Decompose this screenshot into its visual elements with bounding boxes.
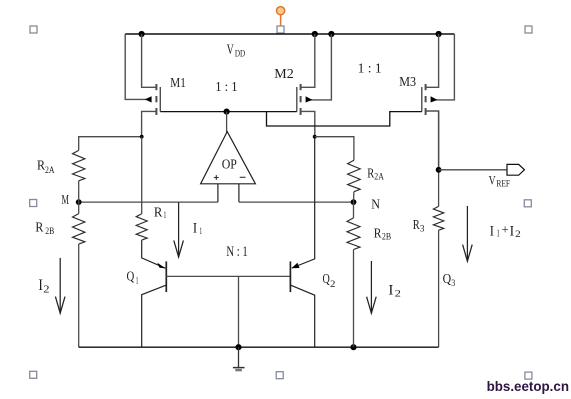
current arrow I1	[174, 203, 184, 257]
svg-text:M1: M1	[170, 76, 186, 91]
svg-text:OP: OP	[222, 157, 237, 172]
wire R2A to node M	[78, 181, 80, 214]
svg-text:V: V	[227, 42, 234, 58]
svg-text:1 : 1: 1 : 1	[358, 62, 382, 77]
svg-text:I: I	[388, 283, 393, 299]
svg-text:I: I	[490, 223, 494, 239]
svg-text:DD: DD	[235, 49, 245, 59]
selection handle mid-right	[524, 200, 531, 207]
wire node M to op-amp + input	[79, 201, 218, 203]
current arrow I1+I2	[463, 206, 473, 261]
junction R2B right on ground rail	[350, 344, 356, 350]
ground junction	[235, 344, 241, 350]
resistor R1	[136, 214, 147, 240]
wire R2B to ground rail	[78, 244, 80, 347]
selection handle bottom-mid	[276, 372, 283, 379]
wire Q1-Q2 common base	[166, 275, 290, 277]
wire gate jog to M3	[267, 112, 422, 126]
svg-text:bbs.eetop.cn: bbs.eetop.cn	[487, 378, 569, 394]
wire op-amp output stub	[226, 112, 228, 133]
VREF output port	[507, 164, 524, 175]
svg-text:REF: REF	[496, 179, 510, 189]
svg-text:Q: Q	[127, 269, 135, 284]
transistor Q1 (PNP)	[142, 261, 167, 347]
svg-text:1: 1	[497, 229, 500, 240]
resistor R2B left	[73, 214, 85, 245]
svg-text:Q: Q	[323, 272, 330, 287]
junction VREF node	[436, 167, 442, 173]
resistor R2A right	[348, 160, 361, 192]
svg-text:I: I	[510, 223, 514, 239]
svg-text:2A: 2A	[45, 166, 55, 176]
transistor M1 (PMOS)	[125, 34, 160, 137]
wire R2A right to node N	[353, 192, 355, 202]
current arrow I2 right	[367, 261, 377, 313]
wire M3 drain to R3	[438, 111, 440, 206]
svg-text:2A: 2A	[374, 173, 384, 183]
wire R3 to ground rail	[438, 230, 440, 347]
svg-text:M: M	[62, 193, 70, 208]
junction M2 source on rail	[312, 31, 318, 37]
junction M2 drain split	[313, 135, 317, 139]
svg-text:+: +	[502, 222, 509, 237]
svg-text:2B: 2B	[45, 227, 54, 237]
svg-text:N: N	[371, 198, 380, 213]
current arrow I2 left	[55, 258, 65, 313]
resistor R2A left	[73, 150, 85, 180]
svg-text:2: 2	[43, 284, 49, 295]
wire M2 drain to Q2 emitter	[292, 137, 315, 268]
svg-text:1: 1	[164, 211, 167, 221]
wire node N to op-amp - input	[239, 201, 354, 203]
selection handle mid-left	[30, 200, 37, 207]
ground rail (bottom wire)	[79, 346, 439, 348]
VDD supply pin	[277, 7, 285, 26]
svg-text:Q: Q	[443, 272, 452, 287]
ground symbol	[233, 347, 245, 370]
wire gate line M1-M2	[160, 111, 296, 113]
wire base to ground rail	[238, 276, 240, 347]
svg-text:3: 3	[420, 225, 425, 235]
selection handle top-right	[525, 26, 532, 33]
selection handle bottom-left	[30, 371, 37, 378]
selection handle bottom-right	[525, 372, 532, 379]
op-amp - input mark	[240, 176, 246, 178]
svg-text:M3: M3	[399, 75, 416, 90]
wire R1 to Q1 emitter	[142, 240, 166, 268]
wire M1 drain to R1	[141, 137, 143, 214]
wire R2B right to ground rail	[353, 250, 355, 348]
junction M1 source on rail	[139, 31, 145, 37]
wire M1 drain split	[79, 137, 142, 151]
svg-text:1: 1	[199, 227, 202, 237]
wire VREF output	[439, 169, 507, 171]
junction gate node to op-amp	[224, 109, 230, 115]
op-amp + input mark	[214, 175, 219, 180]
junction M2 body on rail	[328, 31, 334, 37]
svg-text:2: 2	[395, 290, 402, 300]
svg-text:I: I	[193, 221, 197, 237]
svg-text:2: 2	[515, 230, 521, 240]
selection handle top-left	[30, 26, 37, 33]
node M junction	[76, 199, 82, 205]
svg-text:N : 1: N : 1	[226, 244, 247, 260]
transistor Q2 (PNP)	[290, 261, 314, 347]
svg-text:1: 1	[136, 277, 139, 287]
svg-text:2B: 2B	[382, 232, 391, 242]
node N junction	[351, 199, 357, 205]
transistor M2 (PMOS)	[297, 34, 332, 137]
svg-text:R: R	[35, 221, 44, 236]
svg-text:2: 2	[330, 280, 336, 290]
resistor R2B right	[347, 218, 360, 250]
svg-text:3: 3	[451, 279, 455, 289]
op-amp OP	[201, 132, 256, 203]
svg-text:R: R	[374, 227, 382, 242]
svg-text:I: I	[38, 277, 43, 294]
Q2 emitter arrow	[292, 263, 300, 268]
svg-text:R: R	[154, 206, 163, 221]
svg-text:V: V	[489, 173, 496, 188]
svg-text:1 : 1: 1 : 1	[215, 80, 237, 95]
selection handle top-mid	[277, 26, 284, 33]
VDD rail (top supply wire)	[125, 33, 454, 35]
svg-text:M2: M2	[274, 67, 294, 82]
Q1 emitter arrow	[157, 263, 165, 269]
wire node N to R2B right	[353, 202, 355, 218]
junction M3 source on rail	[436, 31, 442, 37]
wire M2 drain split to R2A right	[315, 137, 354, 161]
resistor R3	[433, 206, 443, 230]
junction M1 drain	[140, 135, 144, 139]
transistor M3 (PMOS)	[422, 34, 455, 170]
